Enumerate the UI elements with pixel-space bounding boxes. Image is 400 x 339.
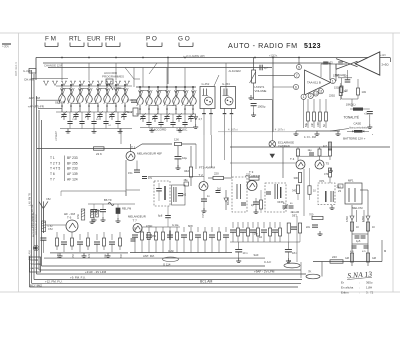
svg-text:1K: 1K (372, 226, 375, 229)
svg-text:+30v: +30v (2, 45, 9, 49)
svg-text:ANTENNE EXTERIEURE: ANTENNE EXTERIEURE (32, 211, 35, 237)
svg-text:22 K: 22 K (96, 152, 102, 156)
svg-text:470Ω: 470Ω (146, 224, 152, 228)
svg-text:CH.AM: CH.AM (24, 78, 34, 82)
svg-text:C.AF: C.AF (168, 249, 174, 253)
svg-text:47n: 47n (148, 177, 153, 180)
svg-text:CASE: CASE (354, 121, 362, 125)
svg-text:B6 T9: B6 T9 (104, 198, 112, 202)
svg-text:G O: G O (178, 36, 190, 43)
svg-text:2n2: 2n2 (182, 194, 187, 197)
svg-text:ORDINAIRE ANT.FM: ORDINAIRE ANT.FM (35, 214, 38, 235)
svg-text:+9 AF - 2V LFM: +9 AF - 2V LFM (85, 270, 107, 274)
svg-text:4 .167v.i: 4 .167v.i (275, 128, 285, 132)
svg-text:5123: 5123 (304, 43, 321, 50)
svg-text:149: 149 (362, 90, 367, 94)
svg-text:11: 11 (319, 90, 323, 94)
svg-text:220: 220 (214, 172, 219, 176)
svg-text:T 1: T 1 (50, 156, 55, 160)
svg-text:342: 342 (184, 169, 189, 173)
svg-text:50μ: 50μ (305, 122, 308, 127)
svg-text:15Ω: 15Ω (334, 86, 339, 90)
svg-text:L3 SEAP: L3 SEAP (55, 131, 58, 141)
svg-text:PROGRAMMES: PROGRAMMES (102, 75, 124, 79)
svg-text:47Ω: 47Ω (89, 253, 91, 258)
svg-text:DET.: DET. (292, 215, 298, 218)
svg-text:GM: GM (345, 257, 349, 260)
svg-text:243: 243 (332, 255, 337, 259)
svg-text:15n: 15n (128, 171, 133, 175)
svg-text:4,7: 4,7 (199, 118, 203, 121)
svg-text:T5: T5 (326, 162, 330, 166)
svg-text:3 : 72: 3 : 72 (366, 291, 374, 295)
svg-text:4,7: 4,7 (264, 66, 268, 70)
svg-text:BF 233: BF 233 (67, 156, 78, 160)
svg-text:G 114: G 114 (163, 263, 171, 267)
svg-text:48a: 48a (184, 179, 189, 182)
svg-text:470Ω: 470Ω (346, 216, 349, 222)
svg-text:+9AF - 2V LFM: +9AF - 2V LFM (254, 269, 275, 273)
svg-text:12K: 12K (174, 138, 179, 142)
svg-text:MELANGEUR 45F: MELANGEUR 45F (137, 152, 162, 156)
svg-text:ANT. FM: ANT. FM (29, 96, 41, 100)
svg-text:470: 470 (324, 172, 329, 176)
svg-text:P O: P O (146, 36, 157, 43)
svg-text:TONALITÉ: TONALITÉ (344, 115, 360, 120)
svg-text:G-U2B: G-U2B (23, 69, 31, 73)
svg-text:Eribm: Eribm (341, 291, 349, 295)
svg-text:1μ5: 1μ5 (356, 239, 361, 243)
svg-text:blanc perturbation: blanc perturbation (349, 126, 369, 129)
svg-text:COMM: COMM (31, 259, 39, 262)
svg-text:4,7K: 4,7K (58, 253, 60, 258)
svg-text:FT1-AM/FM: FT1-AM/FM (199, 166, 215, 170)
svg-text:12: 12 (288, 259, 292, 263)
svg-text:M: M (384, 249, 386, 253)
svg-text:+12. FM. F.U.: +12. FM. F.U. (45, 280, 63, 284)
svg-text:340: 340 (292, 189, 297, 193)
svg-text:EUR: EUR (87, 36, 101, 43)
svg-text:700: 700 (309, 213, 314, 217)
svg-text:47Ω: 47Ω (152, 235, 157, 238)
svg-text:T 7: T 7 (133, 219, 138, 223)
svg-text:T 2: T 2 (199, 173, 204, 177)
svg-text:G-453: G-453 (222, 82, 230, 86)
svg-text:+AF-(FT)-FR: +AF-(FT)-FR (28, 105, 44, 109)
svg-text:10μ: 10μ (182, 156, 187, 160)
svg-text:4n7: 4n7 (323, 145, 328, 148)
svg-text:10: 10 (314, 92, 318, 96)
svg-text:MF1: MF1 (348, 179, 354, 183)
svg-text:Er: Er (341, 281, 344, 285)
svg-text:47Ω: 47Ω (77, 214, 80, 219)
svg-text:REL.FM: REL.FM (122, 208, 131, 211)
svg-text:1,8H: 1,8H (366, 286, 372, 290)
svg-text:4 .167v.i: 4 .167v.i (228, 128, 238, 132)
svg-text:MOT. REF. 3: MOT. REF. 3 (15, 62, 18, 76)
svg-text:2V ACCORD: 2V ACCORD (149, 128, 167, 132)
svg-text:1: 1 (332, 79, 334, 83)
svg-text:ALIGNEM: ALIGNEM (229, 69, 242, 73)
svg-text:CADRAN: CADRAN (278, 144, 290, 148)
svg-text:T 7: T 7 (50, 177, 55, 181)
svg-text:C52: C52 (48, 227, 53, 231)
svg-text:1Ω: 1Ω (259, 236, 262, 239)
svg-text:TAA 611 B: TAA 611 B (307, 81, 321, 85)
svg-text:10KΩ(L): 10KΩ(L) (346, 103, 356, 107)
svg-text:220: 220 (246, 173, 251, 177)
svg-text:G 11a: G 11a (172, 224, 179, 227)
svg-text:2×5Ω: 2×5Ω (382, 63, 390, 67)
svg-text:18 n: 18 n (292, 251, 298, 255)
svg-text:8m2: 8m2 (127, 110, 133, 114)
svg-text:F M: F M (45, 36, 56, 43)
svg-text:6K8: 6K8 (188, 224, 193, 228)
svg-text:T 1: T 1 (131, 146, 136, 150)
svg-text:+9. FM. F.U.: +9. FM. F.U. (70, 276, 86, 280)
svg-text:MELANGEUR: MELANGEUR (128, 215, 146, 219)
svg-text:BF 233: BF 233 (67, 167, 78, 171)
svg-text:BATTERIE 12V +: BATTERIE 12V + (343, 136, 366, 140)
svg-text:MEL FM: MEL FM (352, 206, 363, 210)
svg-text:1kμ: 1kμ (308, 149, 313, 152)
svg-text:220Ω: 220Ω (329, 95, 335, 98)
svg-text:VOLUME: VOLUME (31, 263, 42, 266)
svg-text:7: 7 (296, 74, 298, 78)
svg-text:LACTRIC: LACTRIC (31, 267, 41, 270)
svg-text:0,33: 0,33 (328, 61, 334, 65)
svg-text:470Ω: 470Ω (362, 216, 365, 222)
svg-text:SAF: SAF (254, 253, 259, 257)
svg-text:BF 255: BF 255 (67, 161, 78, 165)
svg-text:100n: 100n (317, 121, 320, 127)
svg-text:T 2 T 3: T 2 T 3 (50, 161, 60, 165)
svg-text:1K: 1K (356, 226, 359, 229)
svg-text:300: 300 (294, 176, 299, 180)
svg-text:T 6: T 6 (67, 216, 72, 220)
svg-text:AF 124: AF 124 (67, 177, 78, 181)
svg-text:4Ω: 4Ω (96, 119, 99, 121)
svg-text:6μ8: 6μ8 (158, 215, 163, 218)
svg-text:1: 1 (303, 95, 305, 99)
svg-text:1ᵉ FI - FM: 1ᵉ FI - FM (304, 135, 317, 139)
svg-text:FRI: FRI (105, 36, 116, 43)
svg-text:CB2: CB2 (46, 198, 51, 201)
svg-text:AF 139: AF 139 (67, 172, 78, 176)
svg-text:10n: 10n (311, 122, 314, 127)
svg-text:2: 2 (310, 94, 312, 98)
svg-text:ANT. FM.: ANT. FM. (143, 254, 155, 258)
svg-text:En añcha: En añcha (341, 286, 354, 290)
svg-text:KP1: KP1 (320, 179, 325, 183)
svg-text:7K: 7K (308, 270, 312, 274)
svg-text:L.AV..FM TR: L.AV..FM TR (29, 193, 32, 206)
svg-text:T 6: T 6 (50, 172, 55, 176)
svg-text:9: 9 (298, 65, 300, 69)
svg-text:T 4 T 5: T 4 T 5 (50, 167, 60, 171)
svg-text:+12V: +12V (380, 54, 386, 57)
svg-text:2V OSC.: 2V OSC. (176, 128, 188, 132)
svg-text:30n: 30n (254, 233, 259, 236)
svg-text:CHANGE 12V: CHANGE 12V (44, 64, 62, 68)
svg-text:G-250: G-250 (113, 86, 122, 90)
svg-text:22n: 22n (306, 226, 311, 229)
svg-text:3,3n: 3,3n (127, 98, 133, 102)
svg-text:10 n: 10 n (243, 251, 249, 255)
svg-text:GM: GM (372, 257, 376, 260)
svg-text:AUTO - RADIO FM: AUTO - RADIO FM (228, 41, 298, 50)
svg-text:BCL AM: BCL AM (200, 280, 212, 284)
svg-text:BCY 9M2: BCY 9M2 (30, 283, 42, 287)
svg-text:6: 6 (295, 85, 297, 89)
svg-text:12n: 12n (344, 75, 349, 78)
svg-text:RTL: RTL (69, 36, 81, 43)
svg-text:G-452: G-452 (202, 82, 210, 86)
svg-text:C.A.F: C.A.F (264, 260, 271, 264)
svg-text:365o: 365o (366, 281, 373, 285)
svg-text:VOLUME: VOLUME (255, 89, 267, 93)
svg-text:T 4: T 4 (290, 157, 295, 161)
svg-text:1000μ: 1000μ (258, 105, 266, 109)
